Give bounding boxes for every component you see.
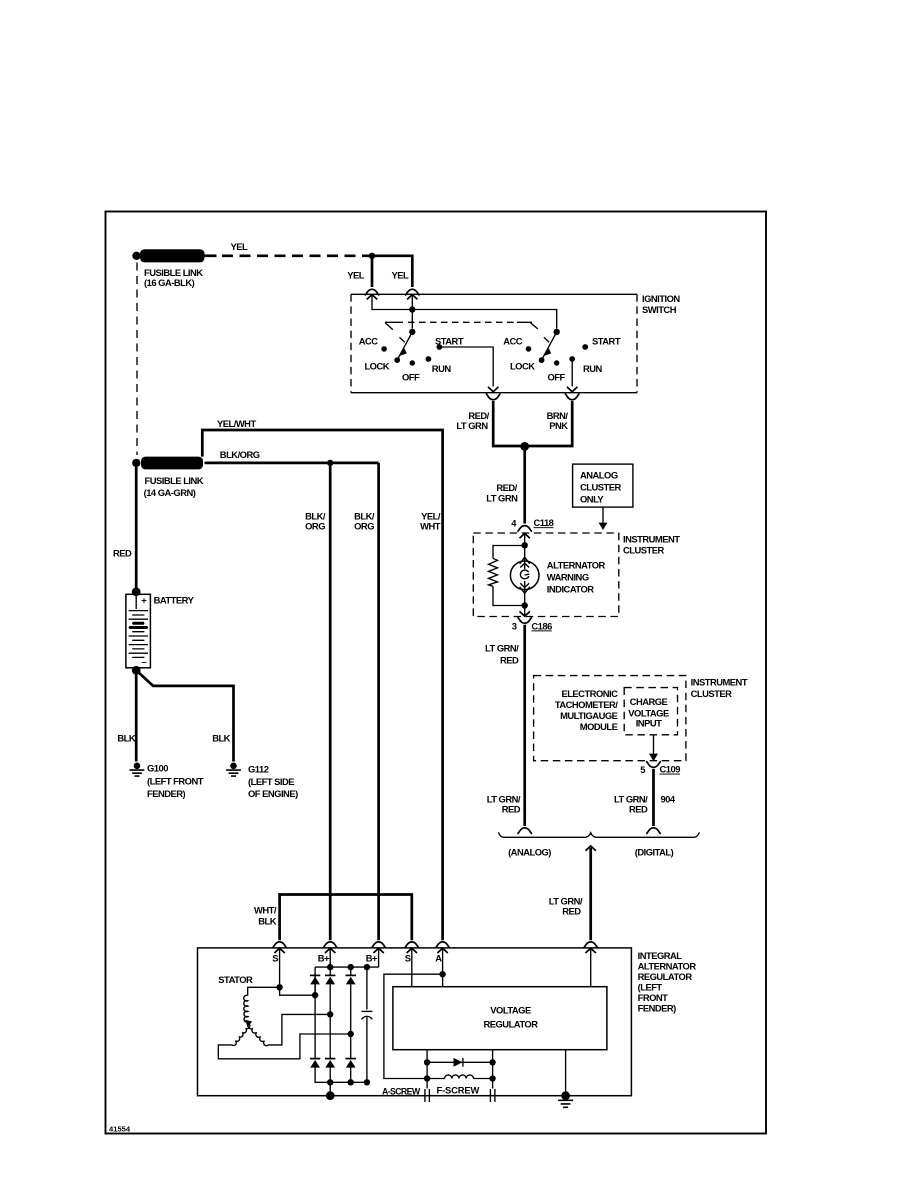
svg-text:S: S	[405, 953, 411, 964]
wire YEL dashed from F1 to ignition switch	[204, 241, 372, 256]
switch wafer 2 pivot	[554, 329, 560, 335]
wire charge voltage output arrow	[649, 735, 658, 761]
svg-text:–: –	[142, 656, 147, 667]
svg-text:FRONT: FRONT	[638, 992, 669, 1003]
node lamp bottom junction	[522, 602, 528, 608]
node field left top	[424, 1059, 430, 1065]
wire stator phase 2 to bridge	[269, 1014, 331, 1045]
ground G100	[130, 763, 204, 800]
wire BLK/ORG top run	[205, 449, 379, 463]
wire BRN/PNK from ignition	[525, 401, 573, 446]
diode D5	[325, 1059, 335, 1068]
svg-text:ALTERNATOR: ALTERNATOR	[638, 961, 697, 972]
svg-text:RED: RED	[113, 548, 132, 559]
wire A pin to regulator	[442, 948, 444, 987]
svg-text:F-SCREW: F-SCREW	[437, 1084, 480, 1095]
instrument cluster box (digital)	[534, 676, 748, 761]
terminal F-screw	[437, 1084, 495, 1102]
ground G112	[226, 763, 298, 800]
svg-text:ANALOG: ANALOG	[580, 469, 618, 480]
svg-text:REGULATOR: REGULATOR	[483, 1019, 538, 1030]
svg-text:BLK: BLK	[212, 732, 230, 743]
wire LT GRN/RED to alternator	[549, 846, 596, 940]
svg-text:INDICATOR: INDICATOR	[547, 584, 594, 595]
svg-text:C118: C118	[534, 517, 554, 528]
svg-text:(LEFT: (LEFT	[638, 982, 663, 993]
wire YEL left drop	[347, 256, 372, 287]
svg-text:OF ENGINE): OF ENGINE)	[248, 788, 298, 799]
diode D7 field	[427, 1058, 493, 1067]
svg-text:YEL: YEL	[392, 270, 410, 281]
switch wafer 2 position contacts	[526, 344, 588, 366]
inductor L1 field coil	[427, 1075, 493, 1079]
svg-text:BLK: BLK	[117, 732, 135, 743]
svg-text:OFF: OFF	[548, 372, 566, 383]
diode D6	[346, 1059, 356, 1068]
integral alternator regulator box	[198, 948, 697, 1096]
svg-text:ALTERNATOR: ALTERNATOR	[547, 560, 606, 571]
switch wafer 2 lever	[542, 332, 557, 360]
capacitor C1	[361, 1011, 372, 1082]
wire cluster exit arrow	[520, 606, 530, 617]
node A branch	[439, 971, 445, 977]
wire I pin to regulator	[590, 948, 592, 987]
connector C186 pin 3	[512, 617, 552, 631]
svg-text:(ANALOG): (ANALOG)	[508, 847, 551, 858]
svg-text:G100: G100	[147, 763, 168, 774]
fusible link F1 (16 GA-BLK)	[132, 249, 204, 288]
wire START output wafer 1	[439, 347, 498, 392]
svg-text:BATTERY: BATTERY	[154, 594, 195, 605]
diode D4	[310, 1059, 320, 1068]
wire YEL/WHT top run	[202, 418, 442, 941]
page border frame	[106, 212, 767, 1134]
node bottom bus 1	[327, 1079, 333, 1085]
svg-text:(LEFT SIDE: (LEFT SIDE	[248, 776, 294, 787]
stator coil 3	[248, 1024, 269, 1046]
svg-text:CLUSTER: CLUSTER	[580, 481, 622, 492]
svg-text:RED: RED	[500, 655, 519, 666]
electronic tachometer module text	[555, 688, 618, 732]
wire LT GRN/RED 904 drop	[614, 769, 676, 826]
wire ignition internal feed right	[407, 295, 417, 329]
svg-text:BLK: BLK	[258, 916, 276, 927]
wire stator phase 1 to bridge	[280, 987, 316, 995]
svg-text:VOLTAGE: VOLTAGE	[490, 1005, 531, 1016]
svg-text:ACC: ACC	[359, 336, 379, 347]
wire S2 to regulator	[411, 948, 413, 987]
switch wafer 1 position labels	[359, 336, 464, 383]
svg-text:B+: B+	[318, 953, 330, 964]
svg-text:(LEFT FRONT: (LEFT FRONT	[147, 776, 204, 787]
node BLK/ORG junction	[327, 460, 333, 466]
wire cluster entry arrow	[520, 533, 530, 545]
wire RED to battery	[113, 467, 136, 589]
svg-text:ONLY: ONLY	[580, 493, 604, 504]
svg-text:YEL/WHT: YEL/WHT	[217, 418, 256, 429]
svg-text:5: 5	[640, 764, 645, 775]
wire A branch to A-screw	[384, 974, 443, 1078]
node regulator ground	[561, 1091, 570, 1100]
svg-text:C186: C186	[531, 620, 552, 631]
ignition switch box	[351, 293, 680, 393]
node bus capacitor	[364, 964, 370, 970]
wire RUN output wafer 2	[567, 359, 577, 392]
ganged link dashed line	[385, 322, 538, 329]
connector pin A	[435, 942, 450, 964]
switch wafer 2 position labels	[503, 336, 621, 383]
connector C118 pin 4	[511, 517, 553, 531]
connector pin S2	[404, 942, 419, 964]
svg-text:(14 GA-GRN): (14 GA-GRN)	[144, 487, 196, 498]
stator center node	[245, 1020, 252, 1028]
svg-text:MODULE: MODULE	[580, 721, 618, 732]
svg-text:STATOR: STATOR	[218, 974, 253, 985]
svg-text:RED: RED	[562, 906, 581, 917]
wire RED/LT GRN to C118	[486, 446, 525, 523]
node case ground B-	[326, 1091, 335, 1100]
connector pin S1	[272, 942, 287, 964]
svg-text:REGULATOR: REGULATOR	[638, 971, 693, 982]
svg-text:(16 GA-BLK): (16 GA-BLK)	[144, 277, 195, 288]
node bridge mid 2	[327, 1011, 333, 1017]
svg-text:INPUT: INPUT	[636, 718, 662, 729]
svg-text:904: 904	[661, 794, 676, 805]
wire BLK/ORG to B+ pin 2	[354, 463, 378, 940]
connector into ignition switch (left YEL)	[365, 289, 380, 295]
svg-text:LT GRN: LT GRN	[486, 492, 518, 503]
svg-text:INSTRUMENT: INSTRUMENT	[623, 534, 680, 545]
svg-text:ORG: ORG	[354, 521, 374, 532]
wire BLK/ORG to B+ pin 1	[305, 463, 330, 940]
fusible link F2 (14 GA-GRN)	[132, 457, 204, 499]
node bus B+1	[327, 964, 333, 970]
svg-text:FENDER): FENDER)	[638, 1003, 677, 1014]
svg-text:WHT/: WHT/	[254, 905, 277, 916]
svg-text:CLUSTER: CLUSTER	[691, 688, 733, 699]
diode bridge bottom bus	[315, 1068, 367, 1096]
wire dashed F1 to F2	[136, 263, 138, 456]
stator coil 2	[232, 1024, 250, 1046]
node bridge mid 3	[348, 1031, 354, 1037]
svg-text:YEL: YEL	[347, 270, 365, 281]
svg-text:ORG: ORG	[305, 521, 325, 532]
wire stator phase 3 to bridge	[218, 1034, 350, 1059]
switch wafer 1 lever	[397, 332, 412, 360]
svg-text:ELECTRONIC: ELECTRONIC	[561, 688, 618, 699]
svg-text:FUSIBLE LINK: FUSIBLE LINK	[145, 475, 204, 486]
svg-text:INSTRUMENT: INSTRUMENT	[691, 677, 748, 688]
svg-text:A: A	[435, 953, 442, 964]
diode D2	[325, 975, 335, 984]
connector C109 pin 5	[640, 762, 680, 775]
node bus diode 3	[348, 964, 354, 970]
svg-text:RED: RED	[629, 804, 648, 815]
svg-text:RED: RED	[502, 804, 521, 815]
node YEL junction	[369, 253, 375, 259]
svg-text:SWITCH: SWITCH	[642, 304, 677, 315]
svg-text:LT GRN: LT GRN	[456, 420, 488, 431]
svg-text:LOCK: LOCK	[510, 361, 535, 372]
svg-text:START: START	[592, 336, 621, 347]
svg-text:FENDER): FENDER)	[147, 788, 186, 799]
brace analog/digital merge	[498, 832, 699, 857]
lamp alternator warning indicator	[510, 545, 605, 605]
svg-text:YEL: YEL	[231, 241, 249, 252]
svg-text:FUSIBLE LINK: FUSIBLE LINK	[144, 267, 203, 278]
switch wafer 1 pivot	[409, 329, 415, 335]
ground case	[558, 1100, 573, 1107]
node field left bottom	[424, 1075, 430, 1081]
wire S1 internal	[279, 948, 281, 987]
wire RED/LT GRN from ignition	[456, 401, 524, 446]
svg-text:B+: B+	[366, 953, 378, 964]
svg-text:CLUSTER: CLUSTER	[623, 544, 665, 555]
diode bridge top bus	[315, 948, 379, 1009]
connector below ignition switch right	[565, 394, 580, 400]
connector below ignition switch left	[486, 394, 501, 400]
svg-text:S: S	[272, 953, 278, 964]
svg-text:CHARGE: CHARGE	[630, 696, 668, 707]
svg-text:G112: G112	[248, 763, 269, 774]
terminal A-screw	[382, 1086, 429, 1102]
wire LT GRN/RED analog drop	[485, 625, 525, 826]
wire arrow from analog note to cluster	[599, 507, 608, 530]
node ignition feed junction	[409, 306, 415, 312]
connector brace left (analog)	[517, 828, 532, 834]
instrument cluster box (analog)	[473, 533, 680, 617]
svg-text:BLK/ORG: BLK/ORG	[220, 449, 260, 460]
wire bridge mid column 1	[315, 948, 351, 1059]
wire regulator ground	[565, 1050, 567, 1096]
wire WHT/BLK jumper	[254, 895, 412, 941]
node RED/LT GRN merge	[520, 442, 529, 451]
wire YEL right drop	[372, 256, 412, 287]
node bottom bus 2	[348, 1079, 354, 1085]
switch wafer 1 position contacts	[381, 344, 442, 366]
node field right bottom	[489, 1075, 495, 1081]
node lamp top junction	[522, 542, 528, 548]
svg-text:START: START	[435, 336, 464, 347]
svg-text:PNK: PNK	[549, 420, 568, 431]
svg-text:41554: 41554	[109, 1125, 131, 1134]
voltage regulator box	[393, 987, 607, 1050]
node bottom bus 3	[364, 1079, 370, 1085]
svg-text:IGNITION: IGNITION	[642, 293, 680, 304]
svg-text:RUN: RUN	[432, 363, 452, 374]
battery	[126, 594, 195, 668]
node S1 junction	[276, 984, 282, 990]
wire BLK to G112	[136, 670, 233, 761]
svg-text:MULTIGAUGE: MULTIGAUGE	[560, 710, 618, 721]
wire BLK to G100	[117, 670, 136, 761]
svg-text:TACHOMETER/: TACHOMETER/	[555, 699, 618, 710]
svg-text:(DIGITAL): (DIGITAL)	[635, 847, 674, 858]
svg-text:WARNING: WARNING	[547, 572, 589, 583]
svg-text:INTEGRAL: INTEGRAL	[638, 950, 683, 961]
svg-text:LOCK: LOCK	[364, 361, 389, 372]
box charge voltage input	[624, 688, 677, 735]
wire regulator to field terminals	[427, 1050, 493, 1089]
svg-text:LT GRN/: LT GRN/	[485, 643, 519, 654]
svg-text:ACC: ACC	[503, 336, 523, 347]
node battery negative	[132, 666, 141, 675]
svg-text:OFF: OFF	[402, 372, 420, 383]
svg-text:3: 3	[512, 621, 517, 632]
connector pin B+2	[366, 942, 386, 964]
svg-text:A-SCREW: A-SCREW	[382, 1086, 421, 1096]
svg-text:RUN: RUN	[583, 363, 603, 374]
connector into ignition switch (right YEL)	[405, 289, 420, 295]
wire ignition internal feed left	[367, 295, 557, 329]
box ANALOG CLUSTER ONLY	[573, 464, 633, 507]
resistor (shunt)	[489, 546, 525, 606]
svg-text:WHT: WHT	[420, 521, 441, 532]
node battery positive	[132, 587, 141, 596]
diode D1	[310, 975, 320, 984]
connector pin I (LT GRN/RED)	[583, 942, 598, 953]
node field right top	[489, 1059, 495, 1065]
node bridge mid 1	[312, 992, 318, 998]
connector brace right (digital)	[646, 828, 661, 834]
stator coil 1	[244, 987, 280, 1022]
svg-text:C109: C109	[660, 764, 681, 775]
diode D3	[346, 975, 356, 984]
connector pin B+1	[318, 942, 338, 964]
